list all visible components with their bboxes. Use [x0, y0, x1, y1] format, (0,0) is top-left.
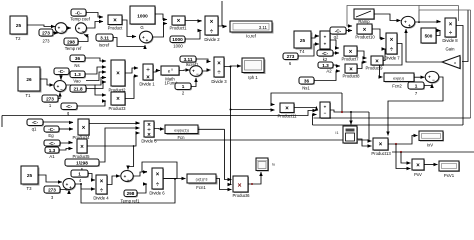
- svg-text:25: 25: [27, 173, 33, 178]
- wire Product8 to Product9 in2: [357, 62, 367, 69]
- constant 500: [421, 28, 437, 44]
- constant 273 (6): [283, 53, 299, 66]
- divide block Divide 3: [211, 57, 227, 84]
- product block Product11: [277, 103, 297, 119]
- svg-text:×: ×: [285, 106, 289, 112]
- wire long left feedback y115.5 to Subtract in2: [2, 111, 317, 116]
- svg-text:×: ×: [217, 61, 221, 67]
- svg-text:36: 36: [75, 56, 81, 61]
- product block Product5: [72, 139, 90, 159]
- svg-text:T4: T4: [300, 49, 306, 54]
- wire branch to Product3 in1: [95, 85, 106, 96]
- constant A2 1.3: [318, 62, 334, 74]
- svg-text:q2: q2: [334, 35, 339, 40]
- wire junction x230 to Product11 in2: [231, 109, 275, 112]
- constant 21.8: [70, 85, 87, 93]
- wire A2 to Product8 in1: [333, 65, 340, 66]
- product block Product13: [371, 138, 391, 156]
- fcn block Fcn2 exp: [384, 73, 415, 89]
- svg-text:×: ×: [416, 163, 420, 169]
- svg-text:1: 1: [78, 172, 81, 177]
- wire Fcn1 to Product6 in3: [216, 179, 232, 190]
- wire Sum8 to Divide8 x: [415, 21, 441, 24]
- svg-text:Fcn: Fcn: [177, 135, 185, 140]
- svg-text:1.3: 1.3: [322, 63, 329, 68]
- svg-text:+: +: [146, 38, 149, 43]
- svg-text:(u(1))^3: (u(1))^3: [196, 177, 208, 181]
- add block rectangular Add: [320, 31, 331, 50]
- wire Divide8 out to right loop x463: [456, 26, 463, 126]
- constant q2 -C-: [330, 27, 347, 40]
- wire top loop stub x458.5: [458, 6, 460, 22]
- constant q1 -C-: [27, 119, 44, 132]
- svg-text:-C-: -C-: [335, 29, 342, 34]
- product block Product3: [108, 92, 126, 111]
- svg-text:+: +: [404, 20, 407, 25]
- constant 1 (2): [175, 83, 192, 96]
- product block Product10: [355, 24, 375, 40]
- constant 273 (1): [42, 95, 59, 108]
- svg-text:25: 25: [300, 38, 306, 43]
- svg-text:Divide 7: Divide 7: [384, 56, 400, 61]
- svg-text:×: ×: [156, 172, 160, 178]
- svg-text:36: 36: [304, 79, 310, 84]
- wire junction down to bottom edge: [81, 180, 175, 204]
- svg-text:×: ×: [100, 179, 104, 185]
- svg-text:×: ×: [390, 37, 394, 43]
- svg-text:PxV: PxV: [414, 172, 422, 177]
- wire down into I1: [350, 112, 352, 125]
- wire mid vertical 1 down to Product6 in1: [225, 129, 232, 179]
- product block Product7: [341, 46, 359, 62]
- svg-text:×: ×: [349, 67, 353, 73]
- svg-text:3.11: 3.11: [259, 25, 268, 30]
- svg-text:×: ×: [113, 18, 117, 24]
- wire Product4 to Divide5 in1: [89, 122, 140, 125]
- wire Sum6 to Divide4 div with junction: [75, 184, 95, 189]
- svg-text:21.8: 21.8: [73, 87, 83, 92]
- sum Sum5: [190, 66, 203, 78]
- svg-text:-C-: -C-: [75, 10, 82, 15]
- svg-text:Ns1: Ns1: [302, 86, 310, 91]
- svg-text:×: ×: [379, 142, 383, 148]
- junction dot Divide6 out branch: [174, 178, 176, 180]
- display PxV1: [439, 161, 460, 178]
- svg-text:×: ×: [177, 19, 181, 25]
- constant k -C-: [54, 68, 70, 81]
- wire Sum3 to Product1 in2: [153, 24, 168, 38]
- wire Divide1 to Math: [153, 71, 160, 73]
- divide block Divide 5: [141, 121, 157, 144]
- svg-text:298: 298: [67, 40, 75, 45]
- wire feedback loop top to Product10 in1: [347, 6, 419, 27]
- constant 273: [39, 29, 54, 44]
- svg-text:Product1: Product1: [169, 26, 187, 31]
- svg-text:−: −: [82, 29, 85, 34]
- sum Sum6: [63, 179, 76, 191]
- junction dot branch: [133, 145, 135, 147]
- wire Add to Product7 in1: [330, 40, 339, 48]
- svg-text:273: 273: [42, 31, 50, 36]
- svg-text:×: ×: [82, 126, 86, 132]
- wire Divide4 to Sum7: [107, 176, 120, 185]
- wire Divide6 to Fcn1: [163, 178, 186, 180]
- svg-text:Io,ref: Io,ref: [246, 34, 257, 39]
- svg-text:×: ×: [116, 97, 120, 103]
- svg-text:+: +: [428, 75, 431, 80]
- wire Divide5 to Fcn: [154, 128, 164, 131]
- wire T3 to Sum6: [38, 175, 62, 182]
- svg-text:1: 1: [415, 84, 418, 89]
- sum Sum3: [140, 31, 154, 44]
- wire G to Product1 in1: [155, 14, 167, 20]
- wire Sum5 to Divide3 div: [202, 70, 210, 71]
- svg-text:+: +: [78, 26, 81, 31]
- constant 1000: [170, 36, 186, 49]
- wire y10 loop down x468 into triangle: [462, 10, 468, 62]
- wire vertical x222 top: [221, 1, 223, 26]
- svg-text:Divide 3: Divide 3: [211, 79, 227, 84]
- constant Iscref1 3.11: [180, 56, 199, 67]
- wire Ns to Product2 in1: [85, 58, 106, 61]
- product block Product8: [342, 64, 360, 79]
- constant 1.3 Vao: [70, 71, 86, 84]
- svg-text:Product11: Product11: [277, 114, 297, 119]
- display IxV: [419, 131, 444, 148]
- constant A1 1.3: [45, 147, 60, 159]
- sum Sum7: [121, 171, 134, 183]
- svg-text:Temp ref: Temp ref: [65, 46, 82, 51]
- product block Product2: [108, 60, 126, 93]
- svg-text:+: +: [324, 42, 327, 47]
- product block PxV: [412, 159, 425, 177]
- wire Sum2 to Product in2: [87, 22, 104, 29]
- wire sum8 branch right y10: [419, 9, 471, 11]
- wire second drop to PxV in2: [396, 152, 411, 169]
- wire Product11 to Subtract in1: [294, 107, 317, 108]
- svg-text:Divide 8: Divide 8: [442, 38, 458, 43]
- wire feedback y93 to Product11 in1: [271, 93, 342, 105]
- svg-text:Product5: Product5: [72, 154, 90, 159]
- wire y152 down to PxV in1: [401, 152, 411, 163]
- memory block I1: [335, 126, 358, 144]
- constant Temp ref1 298: [121, 190, 141, 204]
- svg-text:×: ×: [237, 182, 241, 189]
- svg-text:−: −: [196, 71, 199, 76]
- svg-text:500: 500: [425, 34, 433, 39]
- constant Ns1 36: [299, 77, 315, 91]
- svg-text:1000: 1000: [172, 37, 183, 42]
- product block Product6 highlighted: [232, 176, 250, 198]
- wire 1(2) to Sum5 bottom: [191, 78, 196, 87]
- product block Product9: [365, 56, 384, 71]
- wire T1 to Sum4: [40, 79, 54, 85]
- wire Iscref1 to Divide3 x: [196, 59, 211, 62]
- svg-text:+: +: [192, 69, 195, 74]
- wire Product13 to IxV display: [388, 136, 418, 145]
- wire Product2 to Divide1: [125, 68, 138, 73]
- source block T3 value 25: [21, 166, 40, 191]
- svg-text:×: ×: [449, 22, 453, 28]
- wire Product to Sum3: [122, 20, 136, 37]
- wire Vao row to Product2 in3: [86, 72, 106, 81]
- svg-text:Vao: Vao: [73, 79, 81, 84]
- sum Sum2: [76, 23, 88, 34]
- wire Product6 to scope Iu: [248, 172, 261, 184]
- sum Sum4: [54, 81, 67, 93]
- svg-text:Divide 2: Divide 2: [204, 37, 220, 42]
- svg-text:+: +: [408, 23, 411, 28]
- display Io.ref showing 3.11: [230, 21, 274, 39]
- svg-text:Ns: Ns: [74, 63, 79, 68]
- wire big loop y118: [314, 117, 471, 119]
- wire 273(1) to Sum4 bottom: [58, 93, 60, 99]
- wire junction up to y93 feedback: [341, 93, 343, 112]
- svg-text:26: 26: [26, 77, 32, 82]
- svg-text:1000: 1000: [137, 14, 148, 19]
- wire q to Product3 in2: [77, 101, 106, 106]
- svg-text:Divide 6: Divide 6: [149, 191, 165, 196]
- junction dot x230 y109: [230, 109, 232, 111]
- svg-text:1: 1: [182, 84, 185, 89]
- constant Iscref 3.11: [96, 34, 114, 48]
- svg-text:exp(u): exp(u): [393, 76, 404, 80]
- constant q -C-: [61, 103, 78, 116]
- svg-text:o: o: [454, 61, 456, 65]
- svg-text:Product13: Product13: [371, 151, 391, 156]
- wire loop y125 hook to Subtract in3: [313, 115, 317, 126]
- wire Product3 to Divide1: [125, 76, 138, 99]
- svg-text:Gain: Gain: [446, 47, 456, 52]
- wire Product10 to Divide7 x: [372, 29, 385, 39]
- svg-text:×: ×: [80, 145, 84, 151]
- wire T4 to Add in1: [311, 36, 319, 38]
- svg-text:-C-: -C-: [58, 69, 65, 74]
- svg-text:Temp coef: Temp coef: [70, 17, 90, 22]
- wire Product7 to Product9 in1: [357, 51, 367, 58]
- svg-text:Product: Product: [108, 26, 123, 31]
- product block Product4: [72, 119, 90, 140]
- junction dot red subtract: [341, 111, 343, 113]
- junction dot I1 branch: [350, 111, 352, 113]
- source block T4 value 25: [294, 31, 313, 54]
- constant k2 -C-: [317, 50, 334, 62]
- wire Temp coef to Product in1: [86, 13, 103, 18]
- svg-text:A1: A1: [49, 154, 55, 159]
- svg-text:−: −: [60, 87, 63, 92]
- svg-text:q1: q1: [32, 127, 37, 132]
- svg-text:Divide 1: Divide 1: [139, 82, 155, 87]
- svg-text:T1: T1: [26, 93, 32, 98]
- svg-text:Product10: Product10: [355, 35, 375, 40]
- svg-text:+: +: [324, 104, 327, 109]
- wire Fcn2 to Sum9: [414, 76, 425, 78]
- wire Product1 to Divide2 x: [185, 20, 202, 23]
- wire 21.8 to Product2 in5: [86, 82, 106, 89]
- constant Temp coef -C-: [70, 9, 90, 22]
- svg-text:273: 273: [42, 39, 50, 44]
- wire Math to Sum5: [179, 69, 190, 72]
- wire Sum7 to Divide6 x: [133, 172, 147, 176]
- svg-text:-C-: -C-: [66, 104, 73, 109]
- divide block Divide 8: [442, 18, 458, 43]
- wire Ramp to Sum8: [374, 14, 401, 21]
- wire long line y152 to right edge: [392, 151, 474, 153]
- constant Temp ref 298: [64, 38, 82, 51]
- svg-text:3.11: 3.11: [100, 36, 109, 41]
- svg-text:-C-: -C-: [48, 127, 55, 132]
- svg-text:1.3: 1.3: [49, 148, 56, 153]
- wire Sum9 down to Product13 top: [388, 77, 443, 136]
- wire Fcn output to mid vertical: [198, 128, 225, 130]
- fcn block Fcn1: [187, 174, 218, 190]
- fcn block Fcn exp: [165, 125, 200, 140]
- wire Eg to Product4 in2: [59, 128, 73, 130]
- constant gain G 1000: [130, 6, 156, 30]
- divide block Divide 1: [139, 64, 155, 87]
- svg-text:×: ×: [349, 49, 353, 55]
- svg-text:Product7: Product7: [341, 57, 359, 62]
- svg-text:273: 273: [46, 97, 54, 102]
- junction dot Sum8 out: [418, 21, 420, 23]
- svg-text:298: 298: [127, 191, 135, 196]
- gain triangle pointing left: [442, 56, 461, 70]
- wire q2 to Product10 in2: [346, 30, 352, 32]
- svg-text:PxV1: PxV1: [444, 173, 455, 178]
- svg-text:u: u: [171, 68, 173, 72]
- ramp block Ramp: [354, 9, 375, 24]
- wire loop2 y125: [313, 124, 464, 126]
- svg-text:25: 25: [16, 23, 22, 28]
- svg-text:×: ×: [146, 75, 150, 81]
- divide block Divide 7: [384, 33, 400, 61]
- constant A1 upper -C-: [44, 140, 61, 147]
- svg-text:Product8: Product8: [342, 74, 360, 79]
- wire I1 to Product13 in2: [357, 139, 372, 146]
- wire T2 to Sum1: [27, 25, 55, 27]
- svg-text:×: ×: [375, 59, 379, 65]
- wire A1 to Product5 in2: [59, 149, 73, 151]
- svg-text:−: −: [127, 177, 130, 182]
- svg-text:Fcn1: Fcn1: [196, 185, 206, 190]
- wire Divide3 to scope Iph1 and down junction: [224, 65, 241, 68]
- divide block Divide 6: [149, 168, 165, 196]
- svg-text:Iscref: Iscref: [99, 43, 110, 48]
- sum Sum9: [425, 71, 440, 83]
- svg-text:+: +: [69, 185, 72, 190]
- svg-text:-C-: -C-: [49, 141, 56, 146]
- wire 1.3 to Product2 in2: [85, 67, 106, 74]
- svg-text:A2: A2: [326, 69, 332, 74]
- wire 273 to Sum1: [53, 32, 58, 35]
- svg-text:T2: T2: [16, 36, 22, 41]
- wire q1 to Product4 in1: [43, 121, 73, 124]
- wire branch from Product5 line down to Sum7 top: [128, 146, 134, 170]
- sum Sum8: [401, 16, 416, 28]
- junction dot Divide3 branch: [230, 66, 232, 68]
- wire 500 to Divide8 div: [436, 31, 441, 36]
- wire 1000 to Divide2 div: [185, 31, 202, 40]
- svg-text:Fcn2: Fcn2: [392, 84, 402, 89]
- wire Sum1 to Sum2: [67, 27, 71, 29]
- svg-text:G: G: [140, 25, 143, 30]
- subtract block rectangular: [320, 102, 331, 119]
- scope block Iu: [256, 158, 275, 172]
- svg-text:273: 273: [48, 188, 56, 193]
- constant Eg -C-: [44, 126, 60, 138]
- divide block Divide 2: [204, 16, 220, 42]
- wire A1 upper to Product5 in1: [60, 142, 73, 145]
- svg-text:273: 273: [287, 54, 295, 59]
- junction dot red Product13 out: [395, 143, 397, 145]
- wire big loop top y5.5: [419, 5, 459, 7]
- wire big loop right x470 down: [470, 10, 472, 118]
- junction dot red y152: [400, 151, 402, 153]
- wire PxV to PxV1 display: [424, 164, 438, 166]
- svg-text:Divide 6: Divide 6: [141, 139, 157, 144]
- constant 1 (4): [71, 170, 89, 183]
- svg-text:T3: T3: [27, 186, 33, 191]
- source block T2 value 25: [10, 16, 28, 41]
- svg-text:Product3: Product3: [108, 106, 126, 111]
- svg-text:−: −: [324, 110, 327, 115]
- wire k2 to Product7 in2: [333, 52, 339, 54]
- svg-text:+: +: [324, 35, 327, 40]
- svg-text:exp(u(1)): exp(u(1)): [174, 128, 189, 132]
- wire Divide6 feedback loop above: [142, 162, 177, 179]
- wire 1(7) to Sum9 bottom: [424, 84, 432, 86]
- svg-text:×: ×: [210, 19, 214, 25]
- wire Product5 to Divide5 in3: [87, 133, 140, 146]
- svg-text:Iph 1: Iph 1: [248, 75, 258, 80]
- svg-text:1000: 1000: [173, 44, 183, 49]
- wire junction down to y152 line: [395, 144, 397, 152]
- wire 1/298 up to Divide5 in2: [99, 128, 140, 162]
- svg-text:k2: k2: [323, 57, 328, 62]
- svg-text:×: ×: [363, 27, 367, 33]
- svg-text:I1: I1: [335, 131, 338, 135]
- svg-text:Product6: Product6: [232, 193, 250, 198]
- wire mid vertical 2 from Divide3 down to Product6 in2: [231, 67, 232, 185]
- svg-text:Iu: Iu: [272, 163, 275, 167]
- svg-text:×: ×: [116, 71, 120, 77]
- wire k down to Sum4 top: [60, 75, 62, 80]
- svg-text:IxV: IxV: [427, 143, 433, 148]
- junction dot Product6 out: [251, 183, 253, 185]
- wire Subtract out with junctions to I1 and right: [330, 110, 369, 112]
- wire Divide2 to Display Io.ref with junction from top feedback: [218, 25, 227, 28]
- svg-text:-C-: -C-: [32, 120, 39, 125]
- constant 273 (3): [44, 186, 61, 200]
- scope block Iph 1: [242, 58, 266, 80]
- constant 1/298: [65, 159, 100, 172]
- wire left edge vertical stub: [1, 116, 3, 128]
- product block Product1: [169, 16, 187, 31]
- source block T1 value 26: [18, 67, 42, 98]
- math function block e^u: [161, 66, 180, 86]
- svg-text:Ramp: Ramp: [358, 19, 370, 24]
- svg-text:−: −: [61, 29, 64, 34]
- svg-text:-C-: -C-: [322, 51, 329, 56]
- wire 1(4) to Divide4 x: [88, 174, 95, 181]
- svg-text:Eg: Eg: [48, 133, 54, 138]
- constant Ns 36: [70, 55, 86, 68]
- wire 298 to Sum2 bottom: [78, 35, 88, 42]
- wire Iscref to Sum3 bottom: [113, 38, 145, 47]
- product block Product: [108, 15, 123, 31]
- wire Sum4 to Product2 in4: [66, 78, 106, 86]
- svg-text:Temp ref1: Temp ref1: [121, 199, 141, 204]
